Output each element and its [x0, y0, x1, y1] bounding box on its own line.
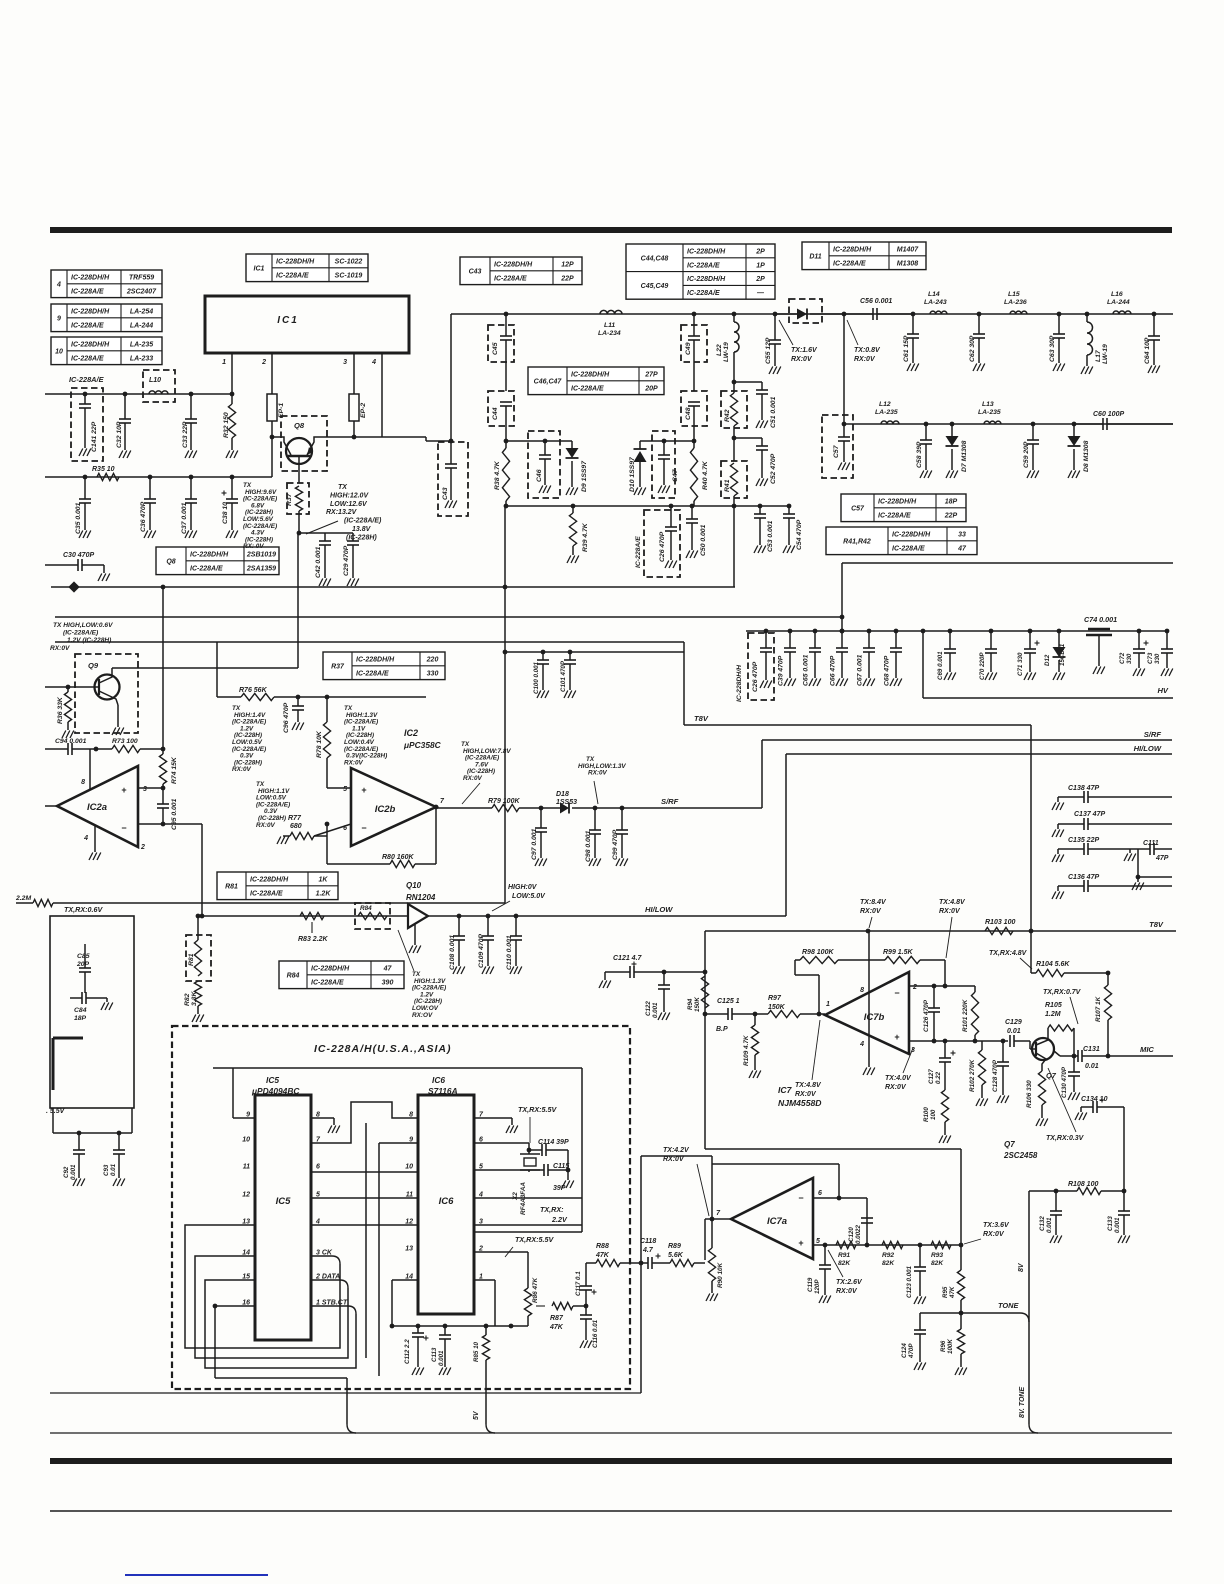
- wire: [504, 506, 506, 903]
- svg-text:20P: 20P: [76, 961, 90, 968]
- wire T8V right: [705, 930, 1176, 932]
- svg-text:C42 0.001: C42 0.001: [315, 546, 322, 578]
- svg-text:TX,RX:0.3V: TX,RX:0.3V: [1046, 1135, 1085, 1142]
- wire: [378, 1143, 380, 1376]
- svg-text:C128 470P: C128 470P: [992, 1059, 999, 1092]
- svg-text:C39 470P: C39 470P: [778, 655, 785, 686]
- svg-text:RX:0V: RX:0V: [232, 766, 252, 773]
- ground: [113, 1179, 117, 1187]
- svg-text:IC-228A/E: IC-228A/E: [250, 890, 283, 897]
- svg-text:12P: 12P: [561, 262, 574, 269]
- ground: [1052, 892, 1056, 900]
- svg-text:10: 10: [55, 348, 63, 355]
- ground: [1081, 367, 1085, 375]
- svg-text:TX:4.8V: TX:4.8V: [939, 899, 966, 906]
- wire bus y642: [55, 641, 684, 643]
- ground: [510, 967, 514, 975]
- svg-text:IC-228DH/H: IC-228DH/H: [571, 372, 610, 379]
- svg-text:C133: C133: [1107, 1216, 1114, 1231]
- wire: [195, 1256, 348, 1358]
- ground: [144, 531, 148, 539]
- wire: [944, 960, 946, 986]
- capacitor C141: [71, 388, 103, 461]
- ground: [347, 579, 351, 587]
- node: [509, 1324, 514, 1329]
- op-amp U IC1 box: [205, 296, 409, 353]
- wire HV branch: [922, 631, 924, 698]
- capacitor C47: [652, 431, 675, 498]
- svg-text:L16: L16: [1111, 291, 1123, 298]
- svg-text:S/RF: S/RF: [1144, 730, 1162, 739]
- ground: [1118, 1236, 1122, 1244]
- wire 8V: [1028, 1191, 1030, 1322]
- capacitor C52: [734, 437, 762, 439]
- svg-text:TONE: TONE: [998, 1301, 1019, 1310]
- svg-text:RX: 0V: RX: 0V: [243, 543, 264, 550]
- transistor Q8: [281, 416, 327, 471]
- capacitor C42: [324, 533, 326, 541]
- svg-text:C54 470P: C54 470P: [796, 519, 803, 550]
- svg-text:R95: R95: [942, 1286, 949, 1298]
- crystal X2: [524, 1158, 536, 1166]
- ground: [98, 574, 102, 582]
- svg-text:3: 3: [143, 786, 147, 793]
- capacitor C128: [1002, 1041, 1004, 1062]
- wire TONE: [961, 1312, 1020, 1314]
- node: [692, 439, 697, 444]
- svg-text:C118: C118: [640, 1238, 656, 1245]
- svg-text:R97: R97: [768, 995, 782, 1002]
- wire R108 net: [1029, 1190, 1056, 1192]
- svg-text:R104 5.6K: R104 5.6K: [1036, 961, 1070, 968]
- wire: [704, 1219, 706, 1260]
- wire: [474, 1224, 582, 1226]
- table L10 variants: [51, 337, 162, 365]
- wire: [365, 1123, 367, 1358]
- svg-text:R91: R91: [838, 1252, 850, 1259]
- svg-text:C100 0.001: C100 0.001: [533, 661, 540, 694]
- svg-text:R101 220K: R101 220K: [962, 999, 969, 1032]
- svg-text:R85 10: R85 10: [473, 1341, 480, 1362]
- wire pin6 net: [813, 1197, 867, 1199]
- svg-text:C58 39P: C58 39P: [916, 441, 923, 468]
- ground: [1161, 669, 1165, 677]
- capacitor C132: [1055, 1191, 1057, 1211]
- ground: [997, 1096, 1001, 1104]
- resistor R84: [355, 903, 390, 929]
- svg-text:C84: C84: [74, 1007, 87, 1014]
- capacitor C54: [787, 504, 792, 509]
- svg-text:47K: 47K: [595, 1252, 610, 1259]
- svg-text:RX:0V: RX:0V: [588, 770, 608, 777]
- capacitor C71: [1028, 629, 1033, 634]
- ground: [539, 486, 543, 494]
- svg-text:1.2K: 1.2K: [316, 890, 332, 897]
- svg-text:R81: R81: [225, 883, 238, 890]
- svg-text:D12: D12: [1044, 654, 1051, 666]
- svg-text:11: 11: [243, 1164, 250, 1171]
- svg-text:−: −: [121, 823, 126, 833]
- resistor R78: [323, 722, 330, 758]
- svg-text:LA-254: LA-254: [130, 309, 153, 316]
- wire bus y617: [55, 616, 842, 618]
- node: [918, 1243, 923, 1248]
- svg-text:C135 22P: C135 22P: [1068, 837, 1099, 844]
- svg-text:D7 M1308: D7 M1308: [961, 440, 968, 472]
- bottom wire rail y1433: [50, 1432, 1172, 1434]
- node: [504, 504, 509, 509]
- wire: [1138, 876, 1172, 878]
- svg-text:IC-228DH/H: IC-228DH/H: [190, 552, 229, 559]
- resistor R35: [97, 473, 119, 480]
- ground: [976, 1099, 980, 1107]
- svg-text:L13: L13: [982, 401, 994, 408]
- wire: [436, 807, 492, 809]
- svg-text:82K: 82K: [931, 1260, 944, 1267]
- node: [566, 1168, 571, 1173]
- svg-text:TX:0.8V: TX:0.8V: [854, 347, 881, 354]
- svg-text:C71 330: C71 330: [1017, 652, 1024, 676]
- resistor R90: [711, 1219, 713, 1248]
- svg-text:SC-1019: SC-1019: [335, 272, 363, 279]
- svg-text:R88: R88: [596, 1243, 609, 1250]
- svg-text:R79 100K: R79 100K: [488, 798, 520, 805]
- svg-text:C122: C122: [645, 1001, 652, 1016]
- svg-text:μPC358C: μPC358C: [403, 740, 442, 750]
- svg-text:TX HIGH,LOW:0.6V: TX HIGH,LOW:0.6V: [53, 622, 113, 629]
- node: [1029, 929, 1034, 934]
- node: [959, 1243, 964, 1248]
- ground: [409, 946, 413, 954]
- svg-text:13: 13: [405, 1246, 413, 1253]
- wire main RF y314: [451, 313, 1173, 315]
- node: [503, 585, 508, 590]
- capacitor C96: [297, 697, 299, 706]
- svg-text:R94: R94: [687, 998, 694, 1010]
- ground: [1053, 364, 1057, 372]
- ground: [119, 451, 123, 459]
- svg-text:C48: C48: [685, 407, 692, 420]
- ground: [1024, 673, 1028, 681]
- resistor R81: [186, 935, 211, 981]
- diode D10: [639, 441, 641, 449]
- svg-text:RX:0V: RX:0V: [463, 775, 483, 782]
- node: [866, 929, 871, 934]
- svg-text:R78 10K: R78 10K: [316, 730, 323, 758]
- resistor R39: [571, 504, 576, 509]
- svg-text:C26 470P: C26 470P: [752, 661, 759, 692]
- svg-text:IC1: IC1: [254, 265, 265, 272]
- resistor R38: [502, 448, 509, 501]
- svg-text:IC-228A/E: IC-228A/E: [311, 979, 344, 986]
- wire: [299, 532, 353, 534]
- ground: [185, 451, 189, 459]
- wire: [298, 511, 300, 533]
- svg-text:18P: 18P: [74, 1015, 87, 1022]
- ground: [836, 679, 840, 687]
- svg-text:2.2V: 2.2V: [551, 1215, 568, 1224]
- table R81 variants: [217, 872, 338, 900]
- wire bus IC6 bottom: [392, 1325, 528, 1327]
- svg-text:R102 270K: R102 270K: [969, 1059, 976, 1092]
- svg-text:4: 4: [83, 835, 88, 842]
- ground: [566, 488, 570, 496]
- svg-text:(IC-228H): (IC-228H): [346, 534, 377, 541]
- svg-text:(IC-228A/E): (IC-228A/E): [63, 630, 98, 637]
- capacitor C117: [580, 1285, 592, 1287]
- node: [943, 1039, 948, 1044]
- wire: [733, 496, 735, 587]
- svg-text:IC-228A/E: IC-228A/E: [571, 385, 604, 392]
- node: [434, 805, 439, 810]
- capacitor C26 A/E: [644, 510, 680, 577]
- capacitor C44: [488, 391, 514, 426]
- svg-text:47P: 47P: [1155, 855, 1169, 862]
- capacitor C122: [663, 972, 665, 985]
- svg-text:RX:0V: RX:0V: [854, 356, 876, 363]
- capacitor C67: [867, 629, 872, 634]
- wire frame right: [581, 1068, 583, 1232]
- pin 1 stub: [231, 353, 233, 394]
- wire: [117, 705, 119, 727]
- wire bias feed: [704, 931, 706, 1149]
- ground: [185, 531, 189, 539]
- svg-text:IC-228DH/H: IC-228DH/H: [71, 309, 110, 316]
- svg-text:L15: L15: [1008, 291, 1020, 298]
- wire T8V: [684, 724, 1031, 726]
- ground: [920, 471, 924, 479]
- table Q4 variants: [51, 270, 162, 298]
- svg-text:1SS53: 1SS53: [556, 799, 577, 806]
- svg-text:C109 470P: C109 470P: [478, 934, 485, 968]
- svg-text:C45,C49: C45,C49: [641, 283, 669, 290]
- node: [620, 806, 625, 811]
- node: [1057, 312, 1062, 317]
- node: [584, 1304, 589, 1309]
- capacitor C63: [1058, 314, 1060, 334]
- ground: [1124, 854, 1128, 862]
- svg-text:Q7: Q7: [1004, 1140, 1015, 1149]
- ground: [939, 1136, 943, 1144]
- node: [1054, 1189, 1059, 1194]
- svg-text:R38 4.7K: R38 4.7K: [494, 460, 501, 490]
- capacitor C92: [77, 1131, 82, 1136]
- ground: [482, 967, 486, 975]
- ground: [863, 1068, 867, 1076]
- svg-text:2SC2458: 2SC2458: [1003, 1151, 1038, 1160]
- svg-text:IC-228A/E: IC-228A/E: [71, 288, 104, 295]
- ground: [506, 1126, 510, 1134]
- wire pin3 net: [909, 1040, 1008, 1042]
- ground: [328, 1126, 332, 1134]
- svg-text:IC-228DH/H: IC-228DH/H: [833, 247, 872, 254]
- svg-text:R36 33K: R36 33K: [57, 696, 64, 724]
- svg-text:RX:0V: RX:0V: [860, 908, 882, 915]
- wire: [868, 931, 870, 1067]
- svg-text:C73: C73: [1147, 652, 1154, 664]
- svg-text:C53 0.001: C53 0.001: [767, 520, 774, 552]
- capacitor C45: [488, 325, 514, 362]
- svg-text:TX,RX:5.5V: TX,RX:5.5V: [515, 1235, 555, 1244]
- svg-text:IC5: IC5: [276, 1196, 292, 1207]
- svg-text:C126 470P: C126 470P: [923, 999, 930, 1032]
- svg-text:C67 0.001: C67 0.001: [857, 654, 864, 686]
- resistor R36: [66, 685, 71, 690]
- capacitor C109: [487, 916, 489, 936]
- svg-text:IC-228A/E: IC-228A/E: [892, 545, 925, 552]
- svg-text:C60 100P: C60 100P: [1093, 411, 1124, 418]
- svg-text:EP-2: EP-2: [360, 403, 367, 418]
- table C46,C47 variants: [528, 367, 664, 395]
- capacitor C46: [528, 431, 560, 498]
- inductor L22: [734, 322, 739, 352]
- wire HI/LOW right: [786, 753, 1172, 755]
- node: [200, 914, 205, 919]
- ground: [292, 723, 296, 731]
- svg-text:C55 12P: C55 12P: [765, 337, 772, 364]
- svg-text:RX:0V: RX:0V: [836, 1288, 858, 1295]
- capacitor C26 DH box: [748, 633, 774, 700]
- svg-text:IC-228DH/H: IC-228DH/H: [736, 664, 743, 702]
- svg-text:5.6K: 5.6K: [668, 1252, 684, 1259]
- ground: [535, 859, 539, 867]
- svg-text:C121 4.7: C121 4.7: [613, 955, 643, 962]
- connector box: [50, 916, 134, 1108]
- svg-text:C46,C47: C46,C47: [534, 378, 563, 385]
- capacitor C68: [894, 629, 899, 634]
- table D11 variants: [802, 242, 926, 270]
- svg-text:IC2a: IC2a: [87, 802, 107, 813]
- ground: [973, 364, 977, 372]
- svg-text:L14: L14: [928, 291, 940, 298]
- node: [973, 1039, 978, 1044]
- node: [504, 312, 509, 317]
- svg-text:+: +: [894, 1032, 899, 1042]
- capacitor C116: [585, 1306, 587, 1315]
- wire: [1030, 725, 1032, 931]
- node: [503, 650, 508, 655]
- inductor L10: [143, 370, 175, 402]
- svg-text:13.8V: 13.8V: [352, 526, 372, 533]
- wire: [435, 807, 437, 864]
- resistor R32: [230, 392, 235, 397]
- capacitor C127: [944, 1041, 946, 1058]
- resistor R42: [721, 391, 747, 428]
- table R37 variants: [323, 652, 445, 680]
- wire: [841, 563, 843, 631]
- capacitor C61: [912, 314, 914, 334]
- svg-text:IC-228A/E: IC-228A/E: [71, 355, 104, 362]
- svg-text:LA-233: LA-233: [130, 355, 153, 362]
- wire: [683, 642, 685, 725]
- svg-text:HIGH:12.0V: HIGH:12.0V: [330, 492, 369, 499]
- ground: [1132, 883, 1136, 891]
- svg-text:C97 0.001: C97 0.001: [531, 828, 538, 860]
- svg-text:C64 10P: C64 10P: [1144, 337, 1151, 364]
- svg-text:IC-228A/E: IC-228A/E: [687, 290, 720, 297]
- ground: [1093, 667, 1097, 675]
- svg-text:680: 680: [290, 823, 302, 830]
- node: [773, 312, 778, 317]
- ground: [101, 1003, 105, 1011]
- ground: [1133, 669, 1137, 677]
- capacitor C37: [189, 475, 194, 480]
- wire: [641, 1155, 712, 1157]
- capacitor C62: [978, 314, 980, 334]
- svg-text:HV: HV: [1157, 686, 1168, 695]
- wire feedback: [712, 1163, 839, 1165]
- svg-text:C132: C132: [1039, 1216, 1046, 1231]
- ground: [1027, 471, 1031, 479]
- ground: [756, 421, 760, 429]
- capacitor C39: [788, 629, 793, 634]
- top border bar: [50, 227, 1172, 233]
- ground: [319, 579, 323, 587]
- capacitor C124: [920, 1312, 961, 1314]
- svg-text:C85: C85: [77, 953, 90, 960]
- svg-text:LOW:5.0V: LOW:5.0V: [512, 893, 546, 900]
- svg-text:LOW:12.6V: LOW:12.6V: [330, 501, 368, 508]
- svg-text:C69 0.001: C69 0.001: [937, 651, 944, 680]
- svg-text:X2: X2: [512, 1192, 519, 1201]
- svg-text:IC-228DH/H: IC-228DH/H: [276, 259, 315, 266]
- svg-text:IC-228A/E: IC-228A/E: [878, 512, 911, 519]
- ground: [769, 367, 773, 375]
- svg-text:R98 100K: R98 100K: [802, 949, 834, 956]
- wire: [640, 440, 694, 442]
- resistor R40: [690, 448, 697, 501]
- ground: [1052, 855, 1056, 863]
- capacitor C70: [989, 629, 994, 634]
- svg-text:LA-235: LA-235: [978, 409, 1001, 416]
- node: [959, 1311, 964, 1316]
- svg-text:39P: 39P: [553, 1185, 566, 1192]
- node: [514, 914, 519, 919]
- ground: [749, 1071, 753, 1079]
- wire: [506, 440, 572, 442]
- svg-text:C112 2.2: C112 2.2: [404, 1339, 411, 1364]
- svg-text:82K: 82K: [882, 1260, 895, 1267]
- node: [639, 1261, 644, 1266]
- svg-text:R35 10: R35 10: [92, 466, 115, 473]
- ground: [453, 967, 457, 975]
- svg-text:C61 15P: C61 15P: [903, 335, 910, 362]
- svg-text:R86 47K: R86 47K: [532, 1277, 539, 1303]
- svg-text:C29 470P: C29 470P: [343, 545, 350, 576]
- svg-text:. 5.5V: . 5.5V: [46, 1108, 66, 1115]
- svg-text:TX,RX:: TX,RX:: [540, 1205, 564, 1214]
- svg-text:R42: R42: [724, 409, 731, 422]
- ground: [760, 681, 764, 689]
- ground: [1050, 1236, 1054, 1244]
- svg-text:2: 2: [140, 844, 145, 851]
- svg-text:R105: R105: [1045, 1002, 1062, 1009]
- IC U5 box: [255, 1095, 311, 1340]
- ground: [754, 546, 758, 554]
- node: [692, 312, 697, 317]
- ground: [89, 853, 93, 861]
- table L9 variants: [51, 304, 162, 332]
- ground: [756, 479, 760, 487]
- svg-text:C35 0.001: C35 0.001: [75, 502, 82, 534]
- ground: [946, 471, 950, 479]
- wire frame bottom: [474, 1231, 582, 1233]
- svg-text:1K: 1K: [319, 877, 329, 884]
- node: [1106, 1054, 1111, 1059]
- svg-text:R32 150: R32 150: [223, 412, 230, 438]
- svg-text:L11: L11: [604, 322, 615, 329]
- wire: [474, 1197, 582, 1199]
